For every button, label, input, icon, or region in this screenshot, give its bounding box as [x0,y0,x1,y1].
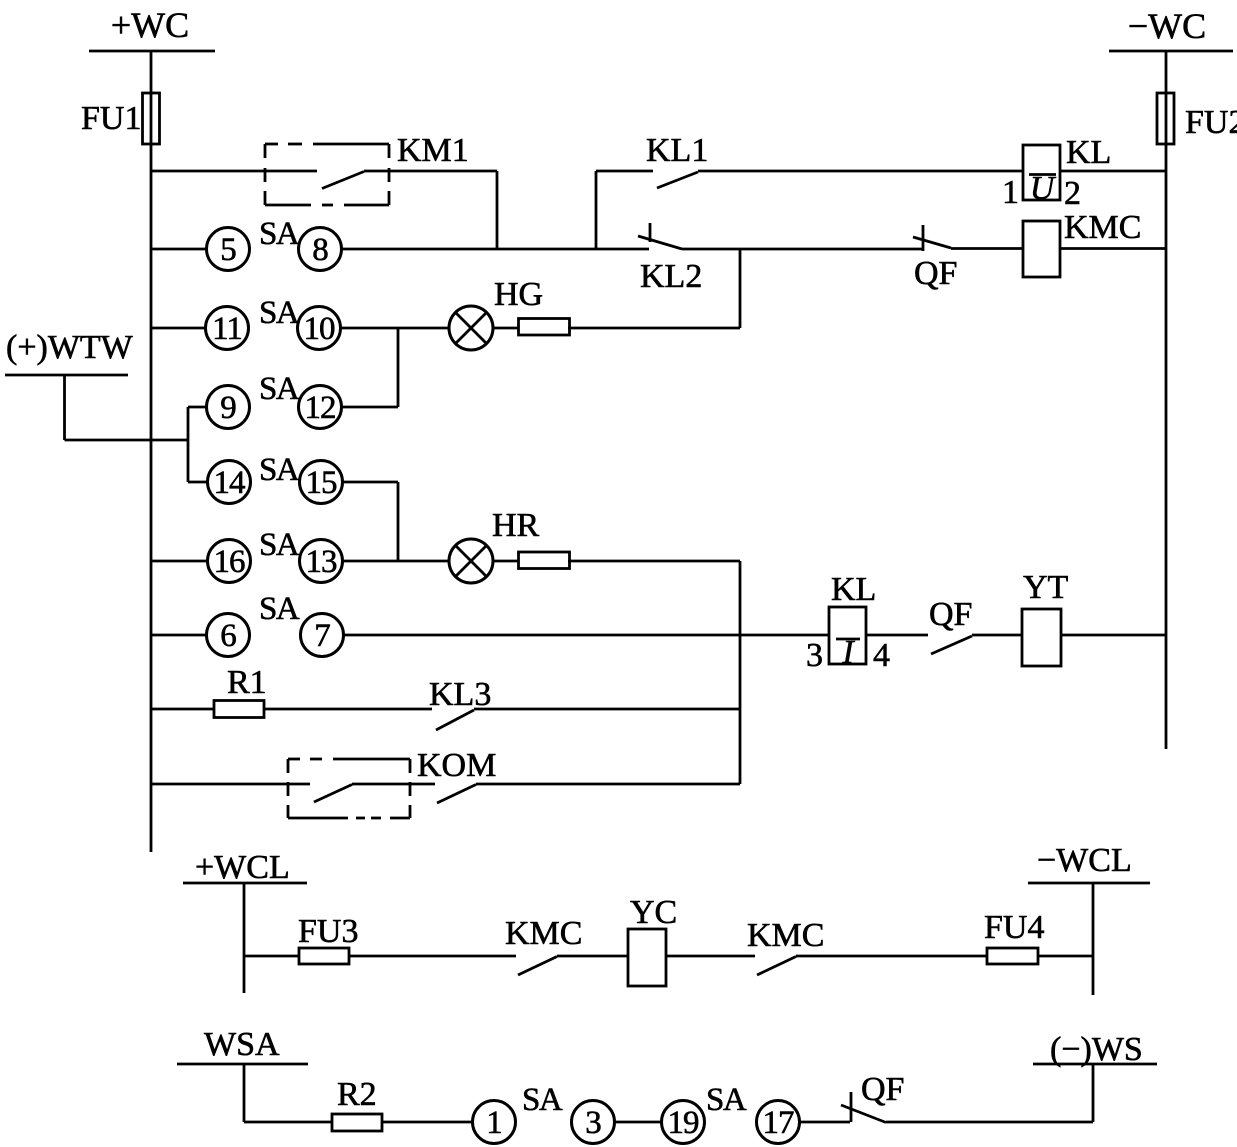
svg-text:KOM: KOM [417,747,496,784]
wire QF to trip coil YT [972,634,1022,637]
wire rung E right [342,481,398,484]
bus +WC [89,5,215,51]
wire rung D stub [188,406,207,409]
contact KL2 (NC) [638,223,702,295]
wire KL1 branch left [596,170,653,173]
wire rung I left [151,783,310,786]
svg-text:KMC: KMC [747,917,824,954]
svg-text:KMC: KMC [1064,209,1141,246]
svg-text:14: 14 [214,465,246,501]
wire: right bus vertical from -WC down to YT rung level [1165,51,1168,749]
wire R2 to SA 1 [382,1121,472,1124]
svg-text:SA: SA [259,527,300,563]
wire: vertical x=740 rung F down to KOM rung [739,561,742,784]
SA contact terminal 8 [299,228,342,271]
contact KMC (NO) right [747,917,824,975]
trip coil YT [1022,569,1069,666]
wire SA 17 to QF [799,1121,850,1124]
svg-text:SA: SA [706,1082,747,1118]
wire -WCL drop [1092,883,1095,995]
svg-text:SA: SA [259,216,300,252]
SA contact terminal 16 [208,540,251,583]
wire rung C left (bus to SA 11) [151,327,206,330]
wire rung F to lamp HR [342,560,449,563]
lamp HR (red indicator with series resistor) [449,507,570,583]
svg-text:3: 3 [585,1105,601,1141]
svg-text:13: 13 [306,544,338,580]
svg-text:FU3: FU3 [298,913,358,950]
wire WTW horizontal to SA bracket [65,439,189,442]
wire FU4 to -WCL [1038,955,1093,958]
contactor KM1 dash-dot enclosure [265,132,469,205]
wire rung F left (bus to SA 16) [151,560,208,563]
wire KL coil to right bus [1060,170,1166,173]
SA contact terminal 1 [473,1101,516,1144]
wire: left bus vertical from +WC down to KOM rung level [150,51,153,852]
svg-text:−WCL: −WCL [1037,842,1132,879]
svg-text:HR: HR [492,507,540,544]
fuse FU1 [81,93,160,144]
wire YC to KMC contact [666,955,755,958]
wire rung C to lamp HG [341,327,449,330]
svg-text:YC: YC [630,894,677,931]
svg-text:WSA: WSA [204,1026,280,1063]
relay U-coil KL (undervoltage element) pins 1-2 [1002,134,1111,212]
svg-text:12: 12 [305,390,336,426]
svg-text:I: I [841,634,855,671]
wire FU3 to KMC contact [349,955,516,958]
SA contact terminal 6 [207,614,250,657]
wire: vertical x=740 rung B to rung C [739,249,742,328]
fuse FU4 [984,909,1044,964]
wire rung G to KL current coil [343,634,829,637]
wire rung A left (bus to KM1 contact) [151,170,317,173]
fuse FU2 [1157,93,1237,144]
svg-text:SA: SA [522,1082,563,1118]
svg-text:7: 7 [314,618,330,654]
bus (-)WS [1033,1031,1157,1068]
svg-text:KL1: KL1 [646,132,708,169]
wire rung E stub [188,481,208,484]
svg-text:(−)WS: (−)WS [1050,1031,1143,1068]
SA contact terminal 13 [300,540,343,583]
svg-text:11: 11 [212,311,242,347]
wire to R2 [244,1121,332,1124]
wire QF to (-)WS [886,1121,1093,1124]
SA contact terminal 17 [757,1101,800,1144]
wire rung B left (bus to SA 5) [151,248,207,251]
svg-text:19: 19 [668,1105,700,1141]
contact KL3 (NO) [429,676,491,730]
svg-text:KM1: KM1 [397,132,469,169]
svg-text:KL3: KL3 [429,676,491,713]
svg-text:6: 6 [220,618,236,654]
svg-text:KL: KL [1066,134,1111,171]
SA contact terminal 14 [208,461,251,504]
svg-text:U: U [1030,170,1057,207]
svg-text:QF: QF [914,255,957,292]
svg-text:3: 3 [806,637,823,674]
contactor KOM dash-dot enclosure [288,747,496,818]
wire KL1 to relay KL voltage coil [698,170,1023,173]
svg-text:KL2: KL2 [640,258,702,295]
svg-text:10: 10 [304,311,336,347]
wire rung B middle [341,248,649,251]
resistor R1 [214,664,267,718]
SA contact terminal 11 [206,307,249,350]
SA contact terminal 12 [299,386,342,429]
wire rung B after KL2 [682,248,922,251]
wire R1 to KL3 [264,708,432,711]
wire YT to right bus [1061,634,1166,637]
svg-text:HG: HG [494,276,543,313]
svg-text:17: 17 [763,1105,795,1141]
svg-text:YT: YT [1023,569,1069,606]
wire (-)WS rise [1092,1064,1095,1122]
bus +WCL [183,849,307,886]
svg-text:KL: KL [831,571,876,608]
contact KM1 (NO blade inside enclosure) [322,172,364,189]
wire KL I-coil to QF [866,634,928,637]
svg-text:−WC: −WC [1128,6,1206,46]
wire KMC coil to right bus [1060,247,1166,250]
closing coil YC [628,894,677,986]
svg-text:R2: R2 [337,1076,377,1113]
resistor R2 [332,1076,382,1131]
wire: vertical x=596 from KL1 branch to rung B [595,171,598,249]
bus -WC [1109,6,1233,51]
svg-text:9: 9 [220,390,236,426]
SA contact terminal 5 [207,228,250,271]
SA contact terminal 19 [662,1101,705,1144]
wire between SA 3 and SA 19 [614,1121,662,1124]
SA contact terminal 7 [301,614,344,657]
contact KOM (NO blade inside enclosure) [314,785,352,803]
SA contact terminal 3 [572,1101,615,1144]
wire: vertical x=398 rung E to rung F [397,482,400,561]
wire rung G left (bus to SA 6) [151,634,207,637]
wire to FU3 [244,955,299,958]
wire WSA drop [243,1064,246,1122]
svg-text:(+)WTW: (+)WTW [6,329,134,366]
relay I-coil KL (current element) pins 3-4 [806,571,890,674]
svg-text:15: 15 [306,465,338,501]
wire QF to KMC coil [951,247,1023,250]
svg-text:SA: SA [259,295,300,331]
contact KL1 (NO) [646,132,708,188]
svg-text:FU1: FU1 [81,100,141,137]
contact QF (NO) on rung G [929,596,972,654]
svg-text:2: 2 [1064,175,1081,212]
wire rung H right [474,708,740,711]
SA contact terminal 10 [298,307,341,350]
wire: vertical x=398 rung C to rung D [397,328,400,407]
bus WSA [177,1026,308,1064]
wire rung I right [476,783,740,786]
svg-text:+WC: +WC [111,5,189,45]
svg-text:5: 5 [220,232,236,268]
wire: vertical drop x=497 from rung A to rung B [496,171,499,249]
contact QF (NC) bottom [841,1071,904,1123]
wire WTW drop [63,375,66,440]
lamp HG (green indicator with series resistor) [449,276,570,350]
svg-text:QF: QF [861,1071,904,1108]
contact KMC (NO) left [505,915,582,975]
wire rung F right of resistor [493,560,518,563]
contact QF (NC, breaker aux) on rung B [913,225,957,292]
svg-text:4: 4 [873,637,890,674]
svg-text:FU2: FU2 [1185,104,1237,141]
svg-text:SA: SA [259,371,300,407]
svg-text:QF: QF [929,596,972,633]
wire +WCL drop [243,883,246,993]
SA contact terminal 15 [300,461,343,504]
node (+)WTW supervision bus [5,329,134,375]
svg-text:KMC: KMC [505,915,582,952]
wire rung H left [151,708,214,711]
fuse FU3 [298,913,358,964]
wire KMC to FU4 [796,955,987,958]
svg-text:16: 16 [214,544,246,580]
wire between KOM contacts [352,783,435,786]
svg-text:+WCL: +WCL [195,849,290,886]
svg-text:FU4: FU4 [984,909,1044,946]
contactor coil KMC [1023,209,1141,277]
svg-text:1: 1 [1002,174,1019,211]
svg-text:SA: SA [259,591,300,627]
SA contact terminal 9 [207,386,250,429]
wire rung C right of resistor [493,327,518,330]
wire rung A right of KM1 contact [364,170,497,173]
wire bracket vertical feeding SA 9 and SA 14 [187,407,190,482]
bus -WCL [1028,842,1150,883]
wire rung D right [341,406,398,409]
svg-text:1: 1 [486,1105,502,1141]
svg-text:SA: SA [259,452,300,488]
svg-text:R1: R1 [227,664,267,701]
contact KOM (NO, outside enclosure) [437,785,476,804]
svg-text:8: 8 [312,232,328,268]
wire KMC to YC coil [557,955,628,958]
